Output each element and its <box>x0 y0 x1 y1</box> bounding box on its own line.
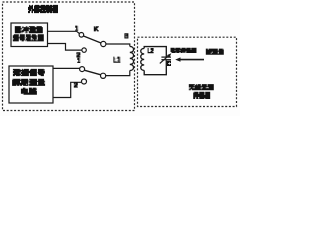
wire: measure box output 2 to lower switch contact 2 <box>53 82 81 97</box>
label 外部控制器 <box>28 6 58 13</box>
label 电路 (line3 of measure box) <box>21 88 37 94</box>
label 信号发生器 (line2 of pulse box) <box>13 35 44 41</box>
capacitor C bottom plate <box>161 59 171 61</box>
dashed enclosure: external controller 外部控制器 <box>3 2 135 111</box>
wire: L1 bottom to lower common pole <box>106 71 130 76</box>
block: resonant signal period measurement circuit 谐振信号周期测量电路 <box>9 66 53 103</box>
label 谐振信号 (line1 of measure box) <box>13 70 45 76</box>
label L2 <box>148 49 154 53</box>
label 传感器 <box>193 92 210 98</box>
pin label 1 (upper switch contact 1) <box>75 26 78 30</box>
switch K upper: moving arm (closed to contact 1) <box>84 36 102 43</box>
switch lower: moving arm (closed to contact 1) <box>85 70 101 75</box>
label 周期测量 (line2 of measure box) <box>12 79 45 85</box>
wire: pulse box output 1 to upper switch contact 1 <box>48 31 80 33</box>
switch lower: contact 2 <box>82 79 87 84</box>
inductor L2 (secondary coil) <box>141 48 144 70</box>
pin label 2 (upper switch contact 2) <box>76 53 80 57</box>
label 无线无源 <box>189 85 214 90</box>
measurand arrow (被测量 acts on C) <box>180 59 205 61</box>
pin label 1 (lower switch contact 1) <box>77 58 80 62</box>
capacitor C variable arrow <box>160 55 170 63</box>
label C <box>167 61 171 65</box>
wire: L2 tank loop (top, right side, bottom) <box>144 47 166 75</box>
dashed enclosure: wireless passive sensor 无线无源传感器 <box>138 37 237 106</box>
wire: pulse box output 2 to upper switch contact 2 <box>48 44 82 51</box>
label 被测量 <box>206 49 224 54</box>
wire: upper common pole to L1 top <box>106 44 130 46</box>
pin label 2 (lower switch contact 2) <box>74 83 78 87</box>
label 脉冲激励 (line1 of pulse box) <box>15 27 43 33</box>
label 电容传感器 <box>171 48 197 52</box>
wire: measure box output 1 to lower switch contact 1 <box>53 67 80 69</box>
switch K upper: common pole <box>101 41 106 46</box>
block: pulse excitation signal generator 脉冲激励信号发生器 <box>11 23 48 47</box>
capacitor C top plate <box>161 56 171 58</box>
label L1 <box>113 57 120 62</box>
switch lower: contact 1 <box>80 67 85 72</box>
switch K upper: contact 1 <box>79 33 84 38</box>
inductor L1 (primary coil) <box>130 46 134 70</box>
node B (boundary) <box>124 34 128 38</box>
switch lower: common pole <box>101 73 106 78</box>
label K (switch) <box>94 27 99 31</box>
switch K upper: contact 2 <box>82 48 86 52</box>
